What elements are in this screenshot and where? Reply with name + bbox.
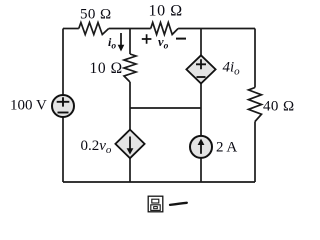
resistor R 50ohm (top-left, horizontal) [79, 23, 109, 35]
resistor R 10ohm (top-right, horizontal) [151, 23, 178, 35]
svg-text:io: io [108, 35, 116, 51]
wire: 4io branch top (top rail to diamond) [200, 29, 202, 56]
svg-text:2 A: 2 A [216, 140, 237, 156]
wire: right side top (corner to 40ohm) [254, 29, 256, 88]
svg-text:40 Ω: 40 Ω [263, 99, 295, 115]
wire: 0.2vo diamond to bottom rail [129, 158, 131, 182]
wire: middle branch top (top rail to 10ohm vertical) [129, 29, 131, 55]
current arrow io (down) [120, 33, 122, 46]
wire: left side top (corner to 100V source) [62, 29, 64, 96]
svg-text:4io: 4io [223, 60, 241, 78]
caption glyph "one" drawn as stroke [170, 203, 187, 205]
resistor R 40ohm (right side, vertical) [249, 88, 262, 122]
wire: top rail right segment [178, 28, 255, 30]
svg-text:100 V: 100 V [10, 98, 47, 114]
current source 2A (circle with up arrow) [190, 136, 212, 158]
label + vo - (voltage across top 10ohm) [142, 34, 152, 43]
caption glyph "tu" (figure) drawn as strokes [148, 196, 163, 212]
wire: right side bottom (40ohm to bottom-right corner) [254, 122, 256, 183]
svg-text:vo: vo [158, 35, 169, 52]
dependent source 4io (diamond, + top / - bottom) [186, 55, 215, 83]
wire: left side bottom (100V source to bottom-left corner) [62, 117, 64, 182]
svg-text:10 Ω: 10 Ω [149, 2, 183, 19]
voltage source V1 100V (circle with + -) [52, 95, 74, 117]
wire: top rail left segment [63, 28, 79, 30]
wire: bottom rail [63, 181, 255, 183]
wire: 2A source to bottom rail [200, 158, 202, 182]
svg-text:10 Ω: 10 Ω [90, 60, 123, 77]
resistor R 10ohm (middle, vertical) [124, 54, 136, 82]
wire: 4io diamond bottom to middle rail and on to 2A source [200, 84, 202, 137]
svg-text:0.2vo: 0.2vo [81, 138, 112, 156]
wire: middle horizontal rail (node between branches) [130, 107, 201, 109]
dependent source 0.2vo (diamond with down arrow) [115, 130, 144, 159]
wire: top rail between 50ohm and 10ohm [109, 28, 151, 30]
wire: middle branch (10ohm vertical down to 0.2vo diamond) [129, 82, 131, 130]
svg-text:50 Ω: 50 Ω [80, 6, 112, 22]
